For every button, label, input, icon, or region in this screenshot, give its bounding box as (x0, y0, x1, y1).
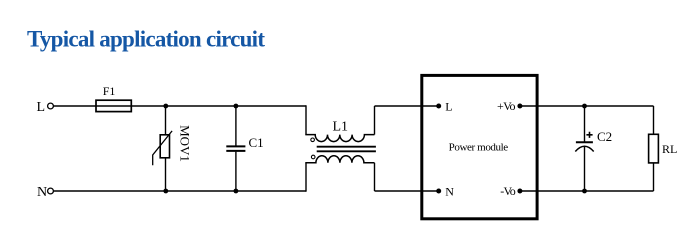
svg-text:Typical application circuit: Typical application circuit (27, 26, 265, 51)
varistor MOV1 body (160, 135, 169, 158)
fuse F1 body (96, 100, 131, 111)
capacitor C2 positive plate (576, 141, 593, 143)
power module pin N dot (436, 189, 441, 194)
svg-text:L: L (445, 100, 452, 114)
wire choke top-left riser (305, 105, 307, 134)
wire C1 top lead (235, 106, 237, 146)
resistor RL body (649, 134, 659, 163)
svg-text:L1: L1 (333, 120, 349, 135)
svg-text:-Vo: -Vo (500, 184, 516, 198)
svg-text:L: L (37, 100, 46, 115)
inductor L1 core line upper (317, 146, 376, 148)
wire choke top-right riser (374, 106, 376, 135)
svg-text:+Vo: +Vo (497, 99, 516, 113)
capacitor C2 plus sign (586, 132, 592, 138)
wire from choke to power module L input (375, 105, 439, 107)
power module U1 box (422, 75, 537, 218)
svg-text:C1: C1 (249, 135, 264, 150)
wire MOV1 bottom lead (165, 158, 167, 191)
junction top rail / C1 (234, 104, 239, 109)
svg-text:F1: F1 (103, 84, 116, 98)
power module pin -Vo dot (517, 189, 522, 194)
junction bottom rail / MOV1 (163, 189, 168, 194)
junction -Vo rail / C2 (582, 189, 587, 194)
svg-text:MOV1: MOV1 (178, 125, 193, 162)
inductor L1 core line lower (317, 150, 376, 152)
wire C2 bottom lead (584, 147, 586, 191)
junction top rail / MOV1 (163, 104, 168, 109)
svg-text:Power module: Power module (449, 141, 509, 153)
node N terminal circle (48, 188, 54, 194)
inductor L1 top winding (305, 135, 374, 142)
wire choke bottom-left riser (305, 163, 307, 192)
capacitor C1 bottom plate (226, 150, 245, 152)
inductor L1 bottom winding (305, 156, 374, 163)
wire bottom rail from N terminal to choke (54, 190, 307, 192)
wire choke bottom-right riser (374, 163, 376, 191)
inductor L1 top polarity dot (311, 138, 315, 142)
wire C1 bottom lead (235, 152, 237, 191)
capacitor C1 top plate (226, 145, 245, 147)
varistor MOV1 diagonal stroke (153, 131, 172, 165)
wire MOV1 top lead (165, 106, 167, 135)
node L terminal circle (48, 103, 54, 109)
svg-text:N: N (37, 185, 47, 200)
wire RL top lead (653, 106, 655, 134)
svg-text:RL: RL (662, 142, 677, 156)
junction bottom rail / C1 (234, 189, 239, 194)
svg-text:C2: C2 (597, 129, 612, 144)
junction +Vo rail / C2 (582, 104, 587, 109)
wire from choke to power module N input (375, 190, 439, 192)
wire RL bottom lead (653, 163, 655, 191)
capacitor C2 curved plate (575, 146, 593, 151)
wire top rail from L terminal to choke (54, 105, 307, 107)
power module pin L dot (436, 104, 441, 109)
svg-text:N: N (445, 185, 454, 199)
wire C2 top lead (584, 106, 586, 142)
inductor L1 bottom polarity dot (311, 155, 315, 159)
power module pin +Vo dot (517, 104, 522, 109)
wire +Vo output rail (520, 105, 654, 107)
wire -Vo output rail (520, 190, 654, 192)
